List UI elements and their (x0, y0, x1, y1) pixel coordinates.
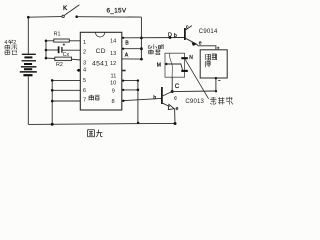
svg-text:14: 14 (110, 39, 116, 45)
Q2 emitter with open arrow (163, 103, 170, 106)
jack contact N bar (181, 57, 188, 59)
walkman box 随身听 (200, 50, 227, 78)
jack lower bar (181, 70, 188, 72)
jack blade (常开 contact) (185, 59, 208, 98)
transistor Q2 C9013 (161, 87, 163, 104)
svg-text:C: C (175, 83, 180, 90)
svg-text:C9014: C9014 (199, 29, 218, 35)
svg-text:11: 11 (111, 73, 117, 79)
jack contact M wire (165, 63, 167, 65)
ground bus vertical pins5-7 (51, 80, 53, 124)
svg-text:9: 9 (112, 89, 115, 95)
wire top rail left of switch (28, 16, 61, 19)
junction dot pin13 (140, 47, 143, 50)
Q2 collector (163, 92, 173, 96)
wire pin8 to Q2 base (122, 98, 161, 100)
wire Q1 emitter to walkman + (197, 45, 216, 50)
switch K (62, 15, 64, 17)
junction dot top-left corner (27, 16, 30, 19)
pin11 stub (122, 70, 126, 72)
svg-text:10: 10 (110, 81, 116, 87)
wire node C to walkman minus (172, 90, 216, 93)
svg-text:B: B (125, 41, 129, 47)
svg-text:7: 7 (83, 97, 86, 103)
svg-text:C9013: C9013 (185, 99, 204, 105)
caption 图九 (88, 130, 103, 137)
IC pin numerals left (83, 40, 86, 104)
svg-text:6: 6 (83, 88, 86, 94)
IC pin numerals right (110, 39, 116, 106)
svg-text:12: 12 (110, 61, 116, 67)
label + (217, 47, 220, 50)
svg-text:R2: R2 (56, 62, 63, 68)
wire pin13 (122, 48, 142, 50)
wire battery top to rail (27, 17, 29, 54)
svg-text:M: M (157, 63, 161, 69)
left vertical RC bus (45, 41, 47, 58)
svg-text:b: b (153, 95, 156, 101)
battery label 4节2号干电池 (4, 40, 17, 55)
svg-text:2: 2 (83, 50, 86, 56)
wire Q2 emitter to rail (174, 109, 176, 124)
svg-text:b: b (174, 33, 177, 39)
svg-text:e: e (176, 106, 179, 112)
junction dot pin12 (140, 58, 143, 61)
wire bottom rail (28, 123, 175, 124)
wire pin10 to ground rail (122, 81, 138, 123)
svg-text:N: N (189, 55, 193, 61)
svg-text:5: 5 (83, 78, 86, 84)
junction dot rail right end (174, 122, 177, 125)
wire pin5 (52, 79, 80, 81)
svg-text:1: 1 (83, 40, 86, 46)
svg-text:13: 13 (110, 51, 116, 57)
wire pin6 (52, 89, 80, 91)
svg-text:4: 4 (83, 68, 86, 74)
IC notch (95, 32, 104, 37)
svg-text:6_15V: 6_15V (107, 7, 127, 14)
svg-text:CD: CD (96, 48, 106, 55)
wire V+ vertical to pins 12/13 (140, 17, 142, 59)
label minus (218, 80, 220, 82)
node C (171, 90, 174, 93)
node D dot (169, 36, 172, 39)
label 常开脚 (210, 97, 233, 105)
svg-text:8: 8 (112, 99, 115, 105)
svg-text:A: A (125, 52, 129, 58)
resistor R2 (46, 57, 55, 59)
wire pin9 (122, 89, 138, 91)
wire walkman minus down (215, 78, 217, 91)
wire top rail right of switch (77, 16, 142, 18)
pin4 stub dot (77, 69, 81, 71)
label 6小脚 / 电器 (148, 44, 164, 54)
junction dot D-row crossing (140, 37, 143, 40)
transistor Q1 C9014 (184, 28, 186, 40)
wire pin14 row to Q1 base (122, 37, 185, 39)
IC text 背面 (89, 95, 100, 101)
battery B1 (20, 54, 37, 75)
svg-text:R1: R1 (54, 32, 61, 38)
wire jack bottom to node C (171, 77, 173, 91)
jack box (6-pin socket) (165, 53, 185, 77)
capacitor C1 (electrolytic, +) (46, 49, 58, 51)
svg-text:4541: 4541 (92, 61, 108, 68)
plug curve (170, 53, 173, 77)
wire pin7 (52, 100, 80, 102)
junction dot rail/pin10 vertical (137, 122, 139, 124)
svg-text:3: 3 (83, 60, 86, 66)
svg-text:K: K (63, 5, 68, 12)
svg-text:D: D (168, 32, 172, 38)
IC U1 CD4541 body (80, 32, 122, 110)
wire battery bottom to rail (27, 76, 29, 124)
wire pin12 (122, 58, 142, 60)
junction dot rail/pins5-7 vertical (51, 123, 54, 126)
